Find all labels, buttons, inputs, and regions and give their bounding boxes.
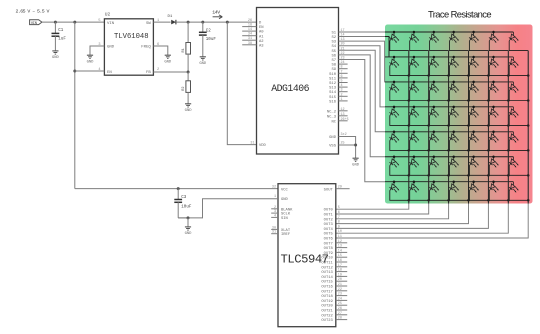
wire cathode r7c6 [489, 190, 508, 200]
svg-text:S16: S16 [329, 100, 337, 104]
svg-text:S15: S15 [329, 96, 337, 100]
node anode r3c4 [452, 81, 455, 84]
svg-text:VIN: VIN [31, 22, 37, 26]
IC U2 TLV61048 box [104, 19, 153, 75]
node anode r5c2 [413, 131, 416, 134]
wire cathode r3c6 [489, 91, 508, 101]
LED row 5 col 1 [388, 132, 399, 143]
node cathode join r6c3 [447, 174, 450, 177]
wire cathode r6c3 [430, 165, 449, 175]
wire cathode r4c3 [430, 116, 449, 126]
node cathode join r5c3 [447, 149, 450, 152]
node C3 gnd [187, 216, 190, 219]
node anode r7c2 [413, 180, 416, 183]
svg-text:IREF: IREF [281, 233, 291, 237]
node anode r3c3 [433, 81, 436, 84]
svg-text:OUT19: OUT19 [321, 300, 333, 304]
svg-text:OUT4: OUT4 [324, 228, 334, 232]
ground under ADG1406 [353, 157, 359, 159]
svg-text:S13: S13 [329, 87, 337, 91]
LED row 2 col 5 [468, 57, 479, 68]
node cathode join r7c4 [467, 199, 470, 202]
node cathode join r7c6 [507, 199, 510, 202]
ground under C2 [200, 56, 206, 58]
svg-text:OUT22: OUT22 [321, 314, 333, 318]
svg-text:VDD: VDD [259, 144, 267, 148]
wire column 6 in-grid [507, 51, 509, 204]
svg-text:GND: GND [329, 136, 337, 140]
LED row 1 col 4 [448, 32, 459, 43]
LED row 7 col 2 [408, 182, 419, 193]
svg-text:GND: GND [52, 56, 60, 60]
LED row 6 col 2 [408, 157, 419, 168]
node cathode join r6c1 [408, 174, 411, 177]
node cathode join r6c7 [527, 174, 530, 177]
node cathode join r2c1 [408, 74, 411, 77]
svg-text:OUT18: OUT18 [321, 295, 333, 299]
wire S1 to row 1 bus [339, 31, 386, 33]
node anode r2c6 [492, 56, 495, 59]
capacitor C2 [202, 22, 204, 32]
svg-text:S2: S2 [331, 36, 336, 40]
svg-text:14V: 14V [212, 9, 220, 15]
wire cathode r3c4 [450, 91, 469, 101]
node cathode join r4c5 [487, 124, 490, 127]
svg-text:EN: EN [259, 26, 264, 30]
svg-text:OUT0: OUT0 [324, 209, 334, 213]
node cathode join r6c4 [467, 174, 470, 177]
node cathode join r6c5 [487, 174, 490, 177]
LED row 2 col 3 [428, 57, 439, 68]
node anode r1c4 [452, 31, 455, 34]
LED row 5 col 3 [428, 132, 439, 143]
node anode r4c6 [492, 106, 495, 109]
wire column 1 in-grid [408, 51, 410, 204]
wire row 3 bus [385, 81, 513, 83]
svg-text:26: 26 [248, 19, 252, 23]
svg-text:NC_2: NC_2 [327, 110, 337, 114]
node VSS-GND join [354, 144, 357, 147]
capacitor C3 [177, 187, 180, 190]
capacitor C1 [54, 22, 56, 33]
svg-text:6: 6 [338, 211, 340, 215]
wire D1 to ADG1406 D pin (14V rail) [176, 21, 256, 23]
LED row 2 col 6 [488, 57, 499, 68]
wire 14V down to VDD pin [227, 22, 256, 145]
svg-text:GND: GND [87, 60, 95, 64]
svg-text:1uF: 1uF [58, 38, 66, 42]
node cathode join r5c7 [527, 149, 530, 152]
node cathode join r7c3 [447, 199, 450, 202]
svg-text:OUT6: OUT6 [324, 238, 334, 242]
wire cathode r4c1 [390, 116, 409, 126]
svg-text:FREQ: FREQ [141, 46, 151, 50]
wire cathode r7c4 [450, 190, 469, 200]
node anode r7c4 [452, 180, 455, 183]
svg-text:A3: A3 [259, 44, 264, 48]
wire row 6 bus [385, 156, 513, 158]
svg-text:OUT13: OUT13 [321, 271, 333, 275]
LED row 4 col 3 [428, 107, 439, 118]
LED row 4 col 5 [468, 107, 479, 118]
svg-text:OUT9: OUT9 [324, 252, 334, 256]
node anode r2c4 [452, 56, 455, 59]
resistor R1 [187, 22, 189, 42]
svg-text:S1: S1 [331, 31, 336, 35]
wire column 7 in-grid [527, 51, 529, 204]
wire row 7 bus [385, 181, 513, 183]
svg-text:10uF: 10uF [206, 38, 217, 42]
svg-text:GND: GND [164, 60, 172, 64]
wire cathode r1c4 [450, 41, 469, 51]
LED row 5 col 5 [468, 132, 479, 143]
svg-text:ADG1406: ADG1406 [271, 83, 309, 94]
svg-text:NC: NC [331, 120, 336, 124]
node anode r4c4 [452, 106, 455, 109]
node anode r6c5 [472, 156, 475, 159]
svg-text:OUT10: OUT10 [321, 257, 333, 261]
node cathode join r4c3 [447, 124, 450, 127]
node cathode join r2c3 [447, 74, 450, 77]
LED row 7 col 6 [488, 182, 499, 193]
wire cathode r6c1 [390, 165, 409, 175]
node 14V-C2 [201, 21, 204, 24]
wire cathode r2c5 [469, 66, 488, 76]
svg-text:VSS: VSS [329, 144, 337, 148]
node cathode join r5c2 [427, 149, 430, 152]
wire cathode r1c5 [469, 41, 488, 51]
svg-text:OUT8: OUT8 [324, 247, 334, 251]
wire cathode r2c3 [430, 66, 449, 76]
svg-text:NC_3: NC_3 [327, 115, 337, 119]
LED row 1 col 1 [388, 32, 399, 43]
LED row 3 col 5 [468, 82, 479, 93]
LED row 7 col 7 [507, 182, 518, 193]
wire cathode r5c6 [489, 141, 508, 151]
wire cathode r4c6 [489, 116, 508, 126]
node anode r1c1 [393, 31, 396, 34]
node anode r1c6 [492, 31, 495, 34]
svg-text:S3: S3 [331, 41, 336, 45]
svg-text:8: 8 [338, 221, 340, 225]
wire row 2 bus [385, 56, 513, 58]
LED row 7 col 4 [448, 182, 459, 193]
svg-text:32: 32 [272, 185, 276, 189]
node anode r5c3 [433, 131, 436, 134]
svg-text:R1: R1 [182, 48, 186, 52]
node anode r3c2 [413, 81, 416, 84]
node anode r7c1 [393, 180, 396, 183]
svg-text:C2: C2 [206, 30, 212, 34]
wire S4 to row 4 bus [339, 46, 386, 107]
LED row 7 col 1 [388, 182, 399, 193]
wire cathode r5c5 [469, 141, 488, 151]
wire cathode r1c3 [430, 41, 449, 51]
LED row 5 col 7 [507, 132, 518, 143]
wire cathode r7c1 [390, 190, 409, 200]
node 14V-R1 [187, 21, 190, 24]
svg-text:OUT7: OUT7 [324, 242, 333, 246]
node cathode join r4c4 [467, 124, 470, 127]
node cathode join r5c5 [487, 149, 490, 152]
LED row 7 col 5 [468, 182, 479, 193]
node cathode join r7c5 [487, 199, 490, 202]
wire column 1 line [336, 51, 409, 210]
node 14V-VDD branch [226, 21, 229, 24]
wire cathode r2c7 [509, 66, 528, 76]
svg-text:S9: S9 [331, 68, 336, 72]
node cathode join r4c1 [408, 124, 411, 127]
node anode r4c3 [433, 106, 436, 109]
svg-text:OUT3: OUT3 [324, 223, 334, 227]
wire column 7 line [336, 51, 528, 238]
svg-text:S7: S7 [331, 59, 336, 63]
svg-text:D1: D1 [168, 15, 173, 19]
node cathode join r5c6 [507, 149, 510, 152]
node VIN-C1 [54, 21, 57, 24]
node cathode join r4c6 [507, 124, 510, 127]
svg-text:C1: C1 [58, 29, 64, 33]
wire S2 to row 2 bus [339, 36, 386, 38]
LED row 5 col 2 [408, 132, 419, 143]
wire cathode r2c6 [489, 66, 508, 76]
svg-text:5: 5 [338, 206, 340, 210]
node anode r6c1 [393, 156, 396, 159]
svg-text:OUT20: OUT20 [321, 305, 333, 309]
node anode r2c2 [413, 56, 416, 59]
node anode r5c4 [452, 131, 455, 134]
node anode r2c1 [393, 56, 396, 59]
LED row 1 col 5 [468, 32, 479, 43]
wire cathode r4c5 [469, 116, 488, 126]
node cathode join r3c2 [427, 99, 430, 102]
node anode r5c6 [492, 131, 495, 134]
wire cathode r4c4 [450, 116, 469, 126]
node anode r1c2 [413, 31, 416, 34]
node anode r1c5 [472, 31, 475, 34]
svg-text:GND: GND [199, 62, 207, 66]
wire cathode r1c7 [509, 41, 528, 51]
svg-text:VCC: VCC [281, 188, 289, 192]
wire cathode r6c6 [489, 165, 508, 175]
ground under C3 [187, 218, 189, 227]
wire column 2 line [336, 51, 429, 214]
node anode r4c2 [413, 106, 416, 109]
LED row 2 col 4 [448, 57, 459, 68]
node cathode join r3c5 [487, 99, 490, 102]
node cathode join r7c7 [527, 199, 530, 202]
ground under C1 [52, 50, 58, 52]
LED row 2 col 7 [507, 57, 518, 68]
svg-text:OUT2: OUT2 [324, 218, 334, 222]
wire cathode r6c7 [509, 165, 528, 175]
svg-text:OUT21: OUT21 [321, 310, 333, 314]
LED row 6 col 6 [488, 157, 499, 168]
node cathode join r3c6 [507, 99, 510, 102]
svg-text:OUT12: OUT12 [321, 266, 333, 270]
LED row 1 col 6 [488, 32, 499, 43]
LED row 3 col 1 [388, 82, 399, 93]
LED row 5 col 4 [448, 132, 459, 143]
svg-text:10uF: 10uF [181, 205, 192, 209]
LED row 6 col 5 [468, 157, 479, 168]
wire cathode r4c2 [410, 116, 429, 126]
node cathode join r2c6 [507, 74, 510, 77]
svg-text:GND: GND [185, 232, 193, 236]
LED row 2 col 2 [408, 57, 419, 68]
LED row 3 col 7 [507, 82, 518, 93]
svg-text:OUT16: OUT16 [321, 286, 333, 290]
node anode r6c4 [452, 156, 455, 159]
wire cathode r3c2 [410, 91, 429, 101]
svg-text:7: 7 [338, 216, 340, 220]
wire cathode r6c4 [450, 165, 469, 175]
wire column 4 line [336, 51, 469, 224]
LED row 4 col 4 [448, 107, 459, 118]
node anode r6c6 [492, 156, 495, 159]
node cathode join r2c5 [487, 74, 490, 77]
node anode r3c1 [393, 81, 396, 84]
node cathode join r7c2 [427, 199, 430, 202]
node EN join [73, 70, 76, 73]
svg-text:OUT11: OUT11 [321, 262, 333, 266]
node cathode join r3c3 [447, 99, 450, 102]
wire column 4 in-grid [468, 51, 470, 204]
svg-text:S10: S10 [329, 73, 337, 77]
wire column 3 line [336, 51, 449, 219]
svg-text:EN: EN [107, 71, 112, 75]
svg-text:5: 5 [98, 19, 100, 23]
node cathode join r5c4 [467, 149, 470, 152]
svg-text:S8: S8 [331, 64, 336, 68]
resistor R2 [187, 72, 189, 81]
wire S3 to row 3 bus [339, 41, 386, 82]
LED row 6 col 3 [428, 157, 439, 168]
svg-text:FB: FB [146, 71, 151, 75]
LED row 2 col 1 [388, 57, 399, 68]
LED row 4 col 2 [408, 107, 419, 118]
svg-text:SIN: SIN [281, 217, 288, 221]
LED row 5 col 6 [488, 132, 499, 143]
ground under R2 [185, 103, 191, 105]
svg-text:U2: U2 [105, 12, 111, 18]
svg-text:OUT1: OUT1 [324, 214, 334, 218]
svg-text:2: 2 [157, 68, 159, 72]
net flag VIN [30, 20, 42, 25]
wire cathode r5c1 [390, 141, 409, 151]
node anode r4c1 [393, 106, 396, 109]
svg-text:S4: S4 [331, 45, 336, 49]
LED row 4 col 1 [388, 107, 399, 118]
node anode r5c1 [393, 131, 396, 134]
node cathode join r7c1 [408, 199, 411, 202]
node anode r6c2 [413, 156, 416, 159]
node cathode join r4c7 [527, 124, 530, 127]
svg-text:9: 9 [338, 225, 340, 229]
svg-text:VIN: VIN [107, 22, 115, 26]
svg-text:OUT14: OUT14 [321, 276, 333, 280]
svg-text:S11: S11 [329, 77, 337, 81]
wire cathode r7c2 [410, 190, 429, 200]
node FB [187, 71, 190, 74]
wire column 5 line [336, 51, 489, 229]
node cathode join r6c2 [427, 174, 430, 177]
IC ADG1406 box [257, 8, 339, 155]
wire row 1 bus [385, 31, 513, 33]
node cathode join r6c6 [507, 174, 510, 177]
LED row 6 col 1 [388, 157, 399, 168]
svg-text:C3: C3 [181, 196, 187, 200]
svg-text:S6: S6 [331, 54, 336, 58]
svg-text:2.65 V – 5.5 V: 2.65 V – 5.5 V [16, 8, 50, 14]
wire cathode r5c3 [430, 141, 449, 151]
node anode r3c6 [492, 81, 495, 84]
node anode r4c5 [472, 106, 475, 109]
node anode r7c5 [472, 180, 475, 183]
wire cathode r2c2 [410, 66, 429, 76]
svg-text:A2: A2 [259, 40, 264, 44]
wire cathode r6c2 [410, 165, 429, 175]
node cathode join r3c1 [408, 99, 411, 102]
wire S7 to row 7 bus [339, 60, 386, 182]
svg-text:OUT15: OUT15 [321, 281, 333, 285]
LED row 7 col 3 [428, 182, 439, 193]
wire cathode r7c7 [509, 190, 528, 200]
node cathode join r3c7 [527, 99, 530, 102]
LED row 3 col 2 [408, 82, 419, 93]
svg-text:Trace Resistance: Trace Resistance [428, 9, 491, 20]
node anode r3c5 [472, 81, 475, 84]
svg-text:GND: GND [107, 46, 115, 50]
node cathode join r2c4 [467, 74, 470, 77]
node anode r6c3 [433, 156, 436, 159]
node anode r2c3 [433, 56, 436, 59]
wire S6 to row 6 bus [339, 55, 386, 157]
wire cathode r1c1 [390, 41, 409, 51]
svg-text:S5: S5 [331, 50, 336, 54]
wire cathode r4c7 [509, 116, 528, 126]
node anode r2c5 [472, 56, 475, 59]
wire cathode r7c3 [430, 190, 449, 200]
svg-text:S14: S14 [329, 91, 337, 95]
LED row 6 col 4 [448, 157, 459, 168]
LED row 1 col 2 [408, 32, 419, 43]
svg-text:OUT23: OUT23 [321, 319, 333, 323]
wire cathode r3c5 [469, 91, 488, 101]
node anode r7c3 [433, 180, 436, 183]
wire column 6 line [336, 51, 509, 234]
LED row 1 col 7 [507, 32, 518, 43]
LED row 4 col 6 [488, 107, 499, 118]
node cathode join r5c1 [408, 149, 411, 152]
node anode r7c6 [492, 180, 495, 183]
IC TLC5947 box [278, 184, 336, 327]
wire cathode r6c5 [469, 165, 488, 175]
node anode r5c5 [472, 131, 475, 134]
node cathode join r2c7 [527, 74, 530, 77]
wire column 3 in-grid [448, 51, 450, 204]
svg-text:GND: GND [185, 109, 193, 113]
wire column 2 in-grid [428, 51, 430, 204]
wire cathode r3c3 [430, 91, 449, 101]
LED row 6 col 7 [507, 157, 518, 168]
node VIN-rail [73, 21, 76, 24]
wire VIN to U2 pin 5 [42, 21, 105, 23]
wire cathode r1c6 [489, 41, 508, 51]
svg-text:A0: A0 [259, 31, 264, 35]
wire cathode r5c4 [450, 141, 469, 151]
LED row 3 col 3 [428, 82, 439, 93]
